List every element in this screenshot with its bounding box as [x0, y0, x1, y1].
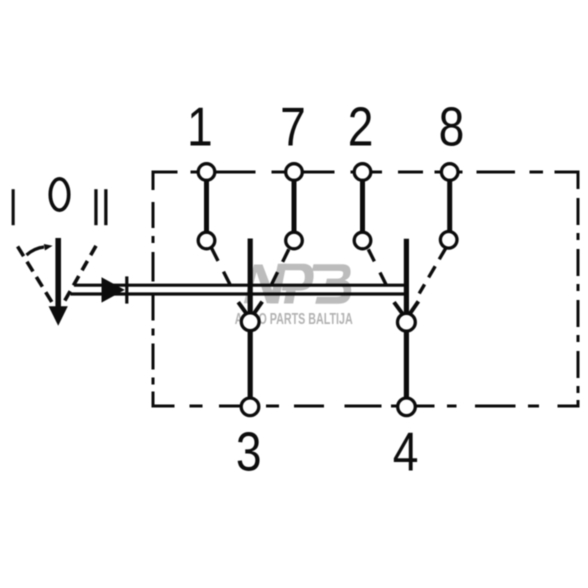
- contact 4 roller circle: [398, 313, 416, 331]
- terminal 8 lead wire: [447, 174, 452, 239]
- terminal 1 dashed contact diagonal: [212, 248, 231, 285]
- lever arrow shaft (position 0): [55, 238, 61, 308]
- terminal 3 border circle: [241, 398, 259, 416]
- position label II: [94, 189, 97, 225]
- position label I: [12, 189, 15, 225]
- enclosure border left (dash-dot): [152, 171, 155, 408]
- terminal 2 dashed contact diagonal: [368, 249, 386, 284]
- actuation curved arrow: [27, 247, 45, 255]
- detent triangle: [102, 277, 125, 302]
- contact 3 wire: [248, 239, 253, 399]
- terminal 4 border circle: [398, 398, 416, 416]
- terminal 8 dashed contact diagonal: [419, 248, 446, 293]
- enclosure border top (dash-dot): [153, 171, 580, 174]
- svg-text:7: 7: [280, 96, 306, 158]
- terminal 2 lead wire: [360, 174, 365, 239]
- svg-text:3: 3: [236, 421, 262, 483]
- terminal 7 lead wire: [292, 174, 297, 239]
- position label 0: [50, 179, 68, 210]
- contact 3 fork: [238, 302, 262, 314]
- terminal 8 top circle: [441, 164, 458, 181]
- terminal 1 top circle: [198, 164, 215, 181]
- terminal 2 top circle: [354, 164, 371, 181]
- svg-text:2: 2: [348, 96, 374, 158]
- svg-text:8: 8: [439, 96, 465, 158]
- lever arrow head: [49, 306, 68, 326]
- watermark logo APB letter P: [270, 264, 314, 304]
- dashed lever position II arm: [64, 246, 96, 302]
- dashed lever position I arm: [18, 246, 55, 306]
- enclosure border bottom (dash-dot): [153, 405, 580, 408]
- terminal 2 lower contact circle: [354, 232, 371, 249]
- svg-text:4: 4: [393, 421, 419, 483]
- detent stop bar: [125, 276, 128, 303]
- terminal 1 lead wire: [204, 174, 209, 239]
- terminal 7 lower contact circle: [286, 232, 303, 249]
- svg-text:1: 1: [187, 96, 213, 158]
- contact 3 roller circle: [241, 313, 259, 331]
- terminal 7 dashed contact diagonal: [272, 249, 289, 284]
- actuator bar lower line: [71, 292, 409, 295]
- terminal 1 lower contact circle: [198, 232, 215, 249]
- contact 4 wire: [404, 239, 409, 398]
- enclosure border right (dash-dot): [577, 171, 580, 408]
- terminal 7 top circle: [286, 164, 303, 181]
- actuator bar upper line: [74, 284, 409, 287]
- watermark logo APB letter A: [244, 265, 277, 304]
- contact 4 fork: [394, 301, 418, 313]
- watermark logo APB letter B: [312, 264, 351, 304]
- terminal 8 lower contact circle: [440, 232, 457, 249]
